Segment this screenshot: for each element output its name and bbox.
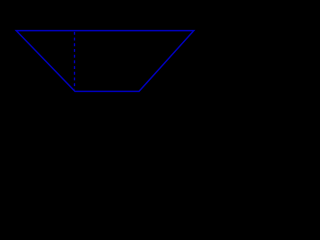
water depth dashed line [74,32,76,89]
channel outline: top edge, right bank, bottom, left bank [16,31,194,92]
trapezoidal channel cross-section diagram [0,0,217,123]
